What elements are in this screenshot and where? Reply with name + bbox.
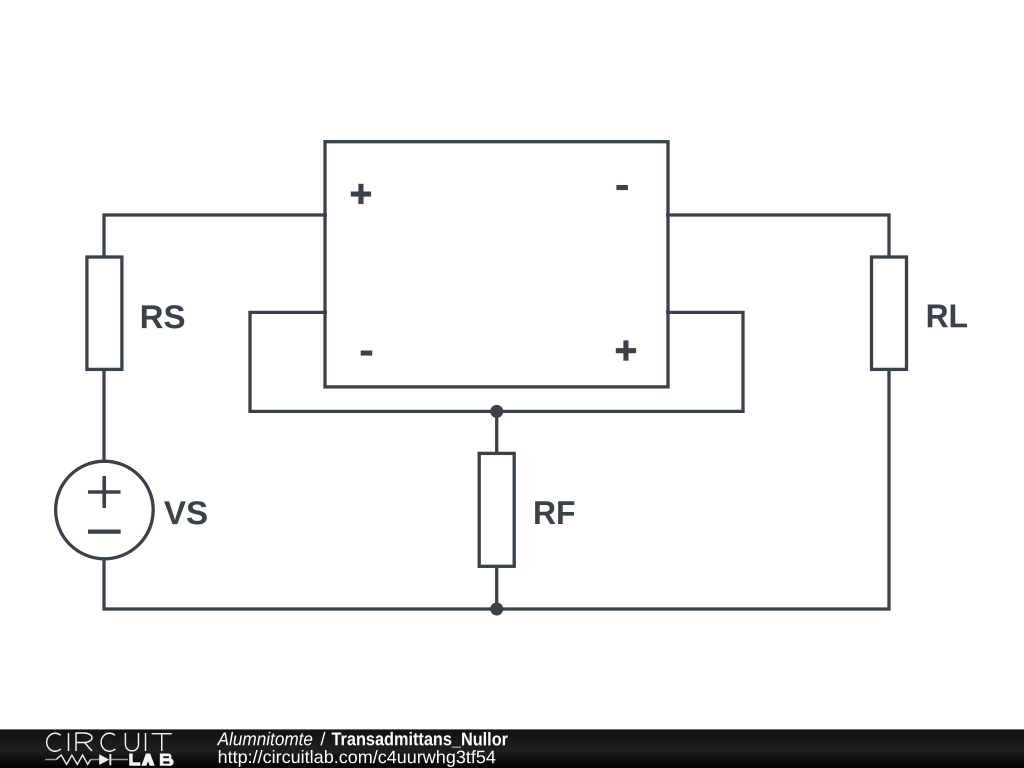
svg-text:RF: RF — [533, 494, 576, 531]
svg-text:RL: RL — [926, 297, 968, 334]
svg-text:VS: VS — [164, 494, 208, 531]
svg-text:http://circuitlab.com/c4uurwhg: http://circuitlab.com/c4uurwhg3tf54 — [218, 747, 496, 767]
svg-text:RS: RS — [140, 298, 186, 335]
